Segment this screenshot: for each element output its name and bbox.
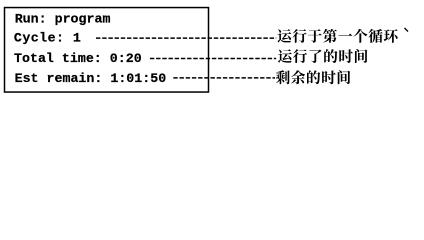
- svg-text:Cycle: 1: Cycle: 1: [14, 31, 81, 46]
- svg-text:Est remain: 1:01:50: Est remain: 1:01:50: [15, 71, 167, 86]
- display panel box: [5, 8, 209, 93]
- leader dashed line 3 (Est remain annotation): [173, 77, 275, 79]
- label text: 运行于第一个循环: [277, 29, 397, 43]
- label text: 运行了的时间: [278, 49, 367, 63]
- leader dashed line 2 (Total time annotation): [150, 58, 276, 60]
- stray scan speck: [405, 28, 409, 32]
- leader dashed line 1 (Cycle annotation): [96, 37, 276, 39]
- svg-text:Total time: 0:20: Total time: 0:20: [14, 51, 142, 66]
- svg-text:Run: program: Run: program: [15, 11, 111, 26]
- label text: 剩余的时间: [276, 70, 350, 84]
